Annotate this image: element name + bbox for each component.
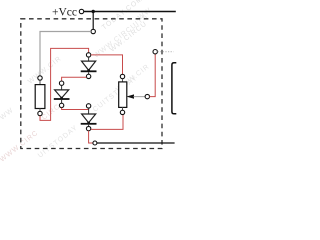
- wire: D1 cathode to D2 anode (red): [62, 77, 87, 81]
- svg-text:+Vcc: +Vcc: [52, 4, 77, 18]
- wire: gray dotted stub from output node: [158, 51, 174, 53]
- wire: D3 cathode down to output node (red): [89, 131, 93, 143]
- junction dot on Vcc bus: [92, 10, 95, 13]
- wire: wiper to output node (red): [150, 54, 156, 97]
- node: output terminal right: [153, 50, 157, 54]
- diode D3: [81, 104, 97, 131]
- node: bus tap: [91, 29, 95, 33]
- diode D1: [81, 53, 97, 79]
- wire: D1 anode to pot top (red): [91, 55, 123, 74]
- wire: Vcc top bus: [84, 11, 176, 13]
- svg-text:WWW.CIR: WWW.CIR: [27, 55, 63, 85]
- wiper arrow of RV1: [126, 94, 134, 98]
- node: output junction bottom: [93, 141, 97, 145]
- diode D2: [54, 81, 70, 108]
- wire: D3 cathode to pot bottom (red): [91, 115, 123, 130]
- watermark hatch texts: [0, 0, 153, 164]
- potentiometer RV1: [119, 74, 127, 114]
- wire: wiper lead (gray): [134, 96, 146, 98]
- wire: D2 cathode to D3 anode (red): [62, 108, 89, 110]
- wire: gray feed to resistor R1: [40, 32, 91, 76]
- wire: bottom black bus: [97, 142, 175, 144]
- wire: R1 bottom to D1 anode (red): [40, 48, 89, 120]
- node: wiper terminal: [145, 94, 149, 98]
- Vcc terminal circle: [79, 9, 83, 13]
- dashed enclosure box: [21, 19, 162, 149]
- resistor R1: [35, 76, 45, 116]
- wire: drop from Vcc bus: [92, 12, 94, 30]
- svg-text:WWW.CIRC: WWW.CIRC: [0, 129, 40, 163]
- svg-text:WW: WW: [0, 107, 15, 122]
- svg-text:UITSTODAY: UITSTODAY: [37, 124, 79, 159]
- bracket of off-page component: [172, 63, 176, 114]
